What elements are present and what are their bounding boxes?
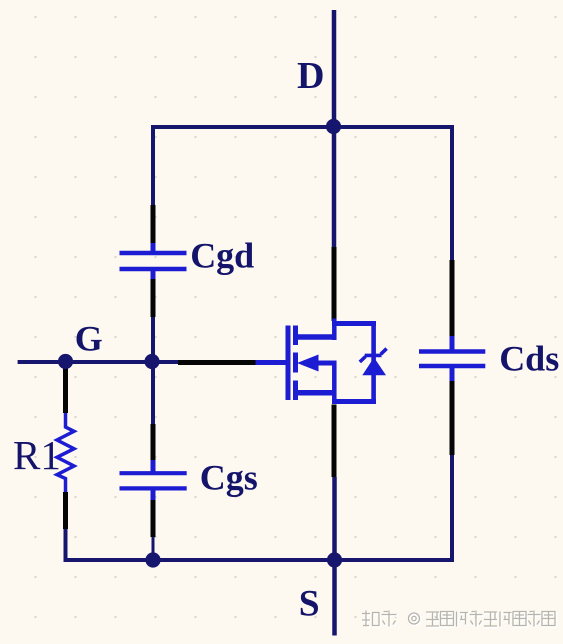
svg-text:G: G (75, 319, 103, 359)
svg-text:D: D (297, 55, 324, 97)
svg-text:Cds: Cds (499, 339, 559, 379)
svg-text:R1: R1 (13, 432, 61, 478)
svg-text:S: S (299, 584, 320, 625)
svg-text:Cgs: Cgs (200, 458, 258, 498)
svg-text:Cgd: Cgd (190, 236, 254, 276)
